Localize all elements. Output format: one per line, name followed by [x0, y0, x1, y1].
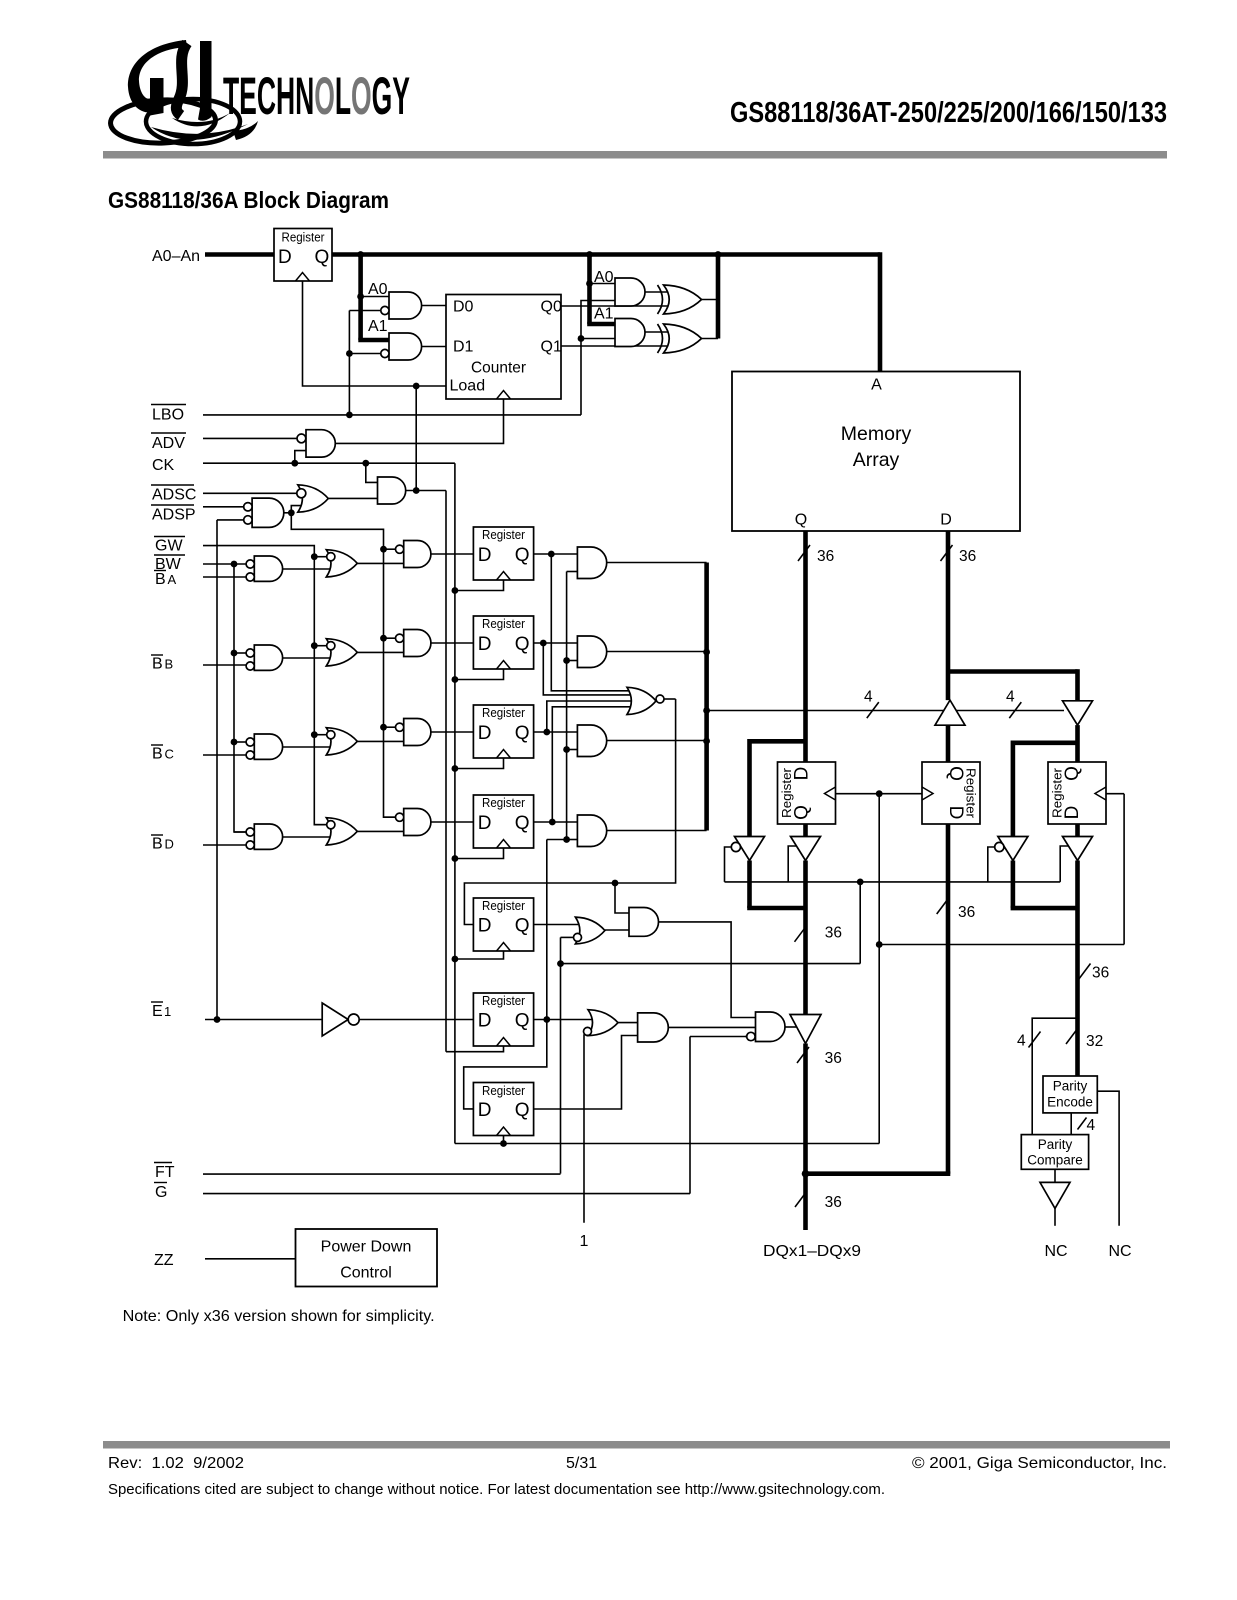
svg-text:D: D: [278, 247, 292, 268]
svg-text:ADSP: ADSP: [152, 507, 196, 524]
svg-text:Note: Only x36 version shown f: Note: Only x36 version shown for simplic…: [123, 1308, 435, 1325]
svg-text:36: 36: [825, 925, 842, 942]
svg-text:36: 36: [959, 548, 976, 565]
svg-text:Register: Register: [482, 994, 525, 1008]
svg-text:Register: Register: [482, 706, 525, 720]
svg-text:Array: Array: [853, 449, 900, 471]
svg-text:A1: A1: [368, 318, 388, 335]
svg-text:Register: Register: [482, 1084, 525, 1098]
svg-text:4: 4: [1006, 689, 1015, 706]
svg-text:Register: Register: [482, 899, 525, 913]
svg-text:D: D: [940, 512, 952, 529]
svg-text:D: D: [478, 545, 492, 566]
svg-text:ZZ: ZZ: [154, 1252, 174, 1269]
svg-text:Q: Q: [792, 805, 813, 820]
svg-text:CK: CK: [152, 457, 175, 474]
svg-text:B: B: [152, 656, 163, 673]
svg-text:Parity: Parity: [1038, 1137, 1073, 1152]
svg-text:D: D: [478, 634, 492, 655]
svg-text:Q0: Q0: [541, 299, 562, 316]
svg-text:A: A: [168, 572, 177, 587]
svg-text:E: E: [152, 1003, 163, 1020]
svg-text:Register: Register: [482, 617, 525, 631]
svg-text:Q: Q: [315, 247, 330, 268]
svg-text:B: B: [165, 657, 174, 672]
svg-text:Q: Q: [515, 916, 530, 937]
svg-text:5/31: 5/31: [566, 1455, 597, 1472]
svg-text:DQx1–DQx9: DQx1–DQx9: [763, 1243, 861, 1260]
svg-text:Q: Q: [515, 1011, 530, 1032]
svg-text:1: 1: [580, 1233, 589, 1250]
svg-text:© 2001, Giga Semiconductor, In: © 2001, Giga Semiconductor, Inc.: [912, 1455, 1167, 1472]
svg-text:D: D: [478, 916, 492, 937]
svg-text:36: 36: [817, 548, 834, 565]
svg-text:GS88118/36A Block Diagram: GS88118/36A Block Diagram: [108, 187, 389, 213]
svg-text:GW: GW: [155, 538, 183, 555]
svg-text:D: D: [792, 767, 813, 781]
svg-text:Power Down: Power Down: [321, 1239, 412, 1256]
svg-text:Specifications cited are subje: Specifications cited are subject to chan…: [108, 1482, 885, 1498]
svg-text:D: D: [945, 806, 966, 820]
svg-text:NC: NC: [1108, 1243, 1131, 1260]
svg-text:Q: Q: [515, 723, 530, 744]
svg-text:36: 36: [825, 1194, 842, 1211]
svg-text:D1: D1: [453, 339, 474, 356]
svg-text:Load: Load: [450, 378, 486, 395]
svg-text:Q1: Q1: [541, 339, 562, 356]
svg-text:Register: Register: [282, 231, 325, 245]
svg-text:Register: Register: [482, 796, 525, 810]
svg-text:Q: Q: [515, 545, 530, 566]
svg-text:Counter: Counter: [471, 360, 527, 377]
svg-text:D: D: [165, 837, 174, 852]
svg-text:D: D: [478, 1100, 492, 1121]
svg-text:A: A: [871, 377, 882, 394]
svg-text:B: B: [152, 836, 163, 853]
svg-text:Rev: 1.02 9/2002: Rev: 1.02 9/2002: [108, 1455, 244, 1472]
svg-text:FT: FT: [155, 1164, 175, 1181]
svg-text:A1: A1: [594, 306, 614, 323]
svg-text:4: 4: [864, 689, 873, 706]
svg-text:D: D: [478, 723, 492, 744]
svg-text:Q: Q: [945, 766, 966, 781]
svg-text:D: D: [478, 813, 492, 834]
svg-text:A0–An: A0–An: [152, 248, 200, 265]
svg-text:36: 36: [958, 904, 975, 921]
svg-text:GS88118/36AT-250/225/200/166/1: GS88118/36AT-250/225/200/166/150/133: [730, 97, 1167, 129]
svg-text:Q: Q: [515, 634, 530, 655]
svg-text:LBO: LBO: [152, 407, 184, 424]
svg-text:D: D: [478, 1011, 492, 1032]
svg-text:Q: Q: [515, 813, 530, 834]
svg-text:Q: Q: [1062, 766, 1083, 781]
svg-text:Parity: Parity: [1053, 1079, 1088, 1094]
svg-text:Register: Register: [482, 528, 525, 542]
svg-text:Memory: Memory: [841, 423, 912, 445]
svg-text:4: 4: [1087, 1117, 1096, 1134]
svg-text:Q: Q: [515, 1100, 530, 1121]
svg-text:TECHNOLOGY: TECHNOLOGY: [223, 66, 410, 125]
svg-text:Q: Q: [795, 512, 807, 529]
svg-text:B: B: [152, 746, 163, 763]
svg-text:ADV: ADV: [152, 435, 185, 452]
svg-text:NC: NC: [1044, 1243, 1067, 1260]
svg-text:4: 4: [1017, 1033, 1026, 1050]
svg-text:A0: A0: [594, 269, 614, 286]
svg-text:D: D: [1062, 806, 1083, 820]
svg-text:Encode: Encode: [1047, 1095, 1093, 1110]
svg-text:Control: Control: [340, 1265, 392, 1282]
svg-text:Compare: Compare: [1027, 1153, 1083, 1168]
svg-text:36: 36: [1092, 965, 1109, 982]
svg-text:1: 1: [164, 1004, 171, 1019]
svg-text:C: C: [165, 747, 174, 762]
svg-text:32: 32: [1086, 1033, 1103, 1050]
svg-text:A0: A0: [368, 281, 388, 298]
svg-text:ADSC: ADSC: [152, 487, 196, 504]
svg-text:36: 36: [825, 1050, 842, 1067]
svg-text:G: G: [155, 1184, 167, 1201]
svg-text:B: B: [155, 571, 166, 588]
svg-text:D0: D0: [453, 299, 474, 316]
